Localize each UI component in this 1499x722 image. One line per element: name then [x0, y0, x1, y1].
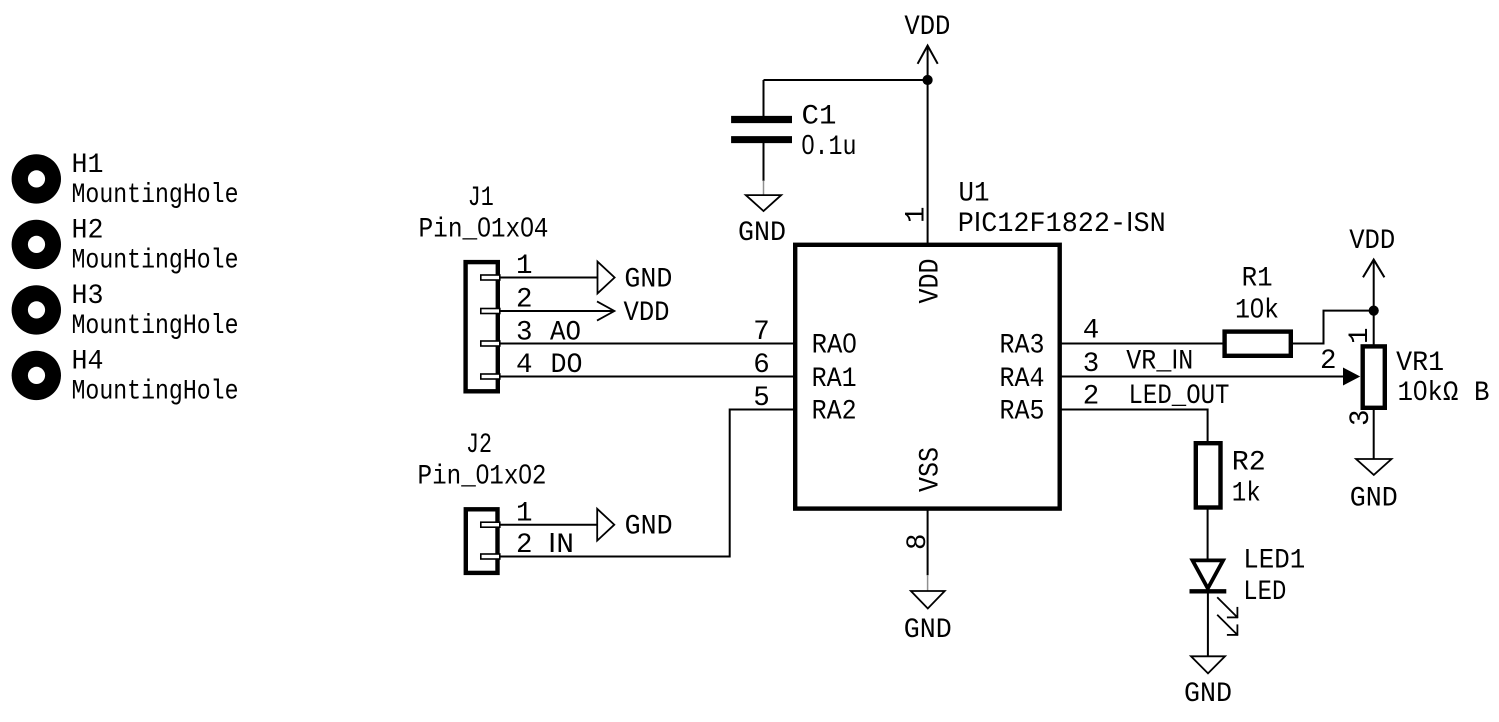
- wire R2 to LED1: [1207, 508, 1209, 559]
- svg-text:Pin_01x04: Pin_01x04: [419, 212, 549, 246]
- svg-text:3: 3: [1346, 409, 1377, 426]
- resistor R2 1k: [1196, 443, 1266, 509]
- svg-text:RA5: RA5: [1000, 396, 1045, 427]
- svg-text:2: 2: [1320, 346, 1337, 377]
- junction dot VDD right node: [1369, 306, 1379, 316]
- mounting hole H2: [12, 216, 239, 277]
- svg-text:H3: H3: [72, 281, 104, 312]
- svg-text:GND: GND: [1350, 484, 1398, 515]
- connector J2 Pin_01x02: [418, 430, 547, 573]
- svg-text:GND: GND: [624, 265, 672, 296]
- wire DO: J1 pin4 to RA1: [500, 376, 795, 378]
- wire J1 pin2 to VDD label: [500, 310, 614, 312]
- ground GND below VR1: [1350, 459, 1398, 515]
- svg-text:U1: U1: [959, 178, 990, 209]
- VR1 pin 2 number: [1320, 346, 1337, 377]
- wire VDD top to C1: [764, 79, 928, 81]
- svg-text:PIC12F1822-ISN: PIC12F1822-ISN: [958, 206, 1166, 240]
- U1 pin 2 RA5: [1000, 382, 1100, 428]
- svg-text:RA4: RA4: [1000, 364, 1045, 395]
- svg-text:10k: 10k: [1235, 292, 1279, 326]
- svg-text:VDD: VDD: [624, 298, 670, 329]
- svg-text:LED1: LED1: [1243, 545, 1305, 576]
- connector J1 Pin_01x04: [419, 183, 549, 391]
- svg-text:RA3: RA3: [1000, 331, 1045, 362]
- wire AO: J1 pin3 to RA0: [500, 343, 795, 345]
- wire R1 to VDD node: [1291, 311, 1374, 344]
- svg-text:Pin_01x02: Pin_01x02: [418, 459, 547, 493]
- svg-text:J2: J2: [466, 430, 492, 461]
- svg-text:H1: H1: [72, 150, 104, 181]
- wire J2 pin1 to GND label: [500, 524, 597, 526]
- U1 pin 4 RA3: [1000, 316, 1100, 362]
- net label VDD at J1 pin 2: [597, 298, 670, 329]
- svg-text:10kΩ B: 10kΩ B: [1398, 375, 1490, 409]
- svg-text:LED: LED: [1243, 577, 1286, 608]
- VR1 pin 1 number: [1345, 327, 1376, 344]
- resistor R1 10k: [1225, 264, 1291, 356]
- svg-text:3: 3: [1083, 349, 1100, 380]
- wire VDD to U1 pin 1: [927, 80, 929, 245]
- U1 pin 6 RA1: [753, 350, 856, 395]
- VR1 pin 3 number: [1346, 409, 1377, 426]
- J1 pin 4 label DO: [516, 350, 583, 381]
- svg-text:MountingHole: MountingHole: [72, 377, 239, 408]
- wire IN: J2 pin2 to RA2: [500, 410, 795, 557]
- svg-text:VDD: VDD: [904, 12, 950, 43]
- svg-text:GND: GND: [904, 615, 952, 646]
- U1 pin 1 VDD (top): [902, 206, 947, 303]
- net label GND at J1 pin 1: [598, 262, 673, 296]
- svg-text:VDD: VDD: [1349, 226, 1395, 257]
- svg-text:2: 2: [516, 530, 533, 561]
- svg-text:1k: 1k: [1232, 479, 1261, 510]
- svg-text:8: 8: [903, 533, 934, 550]
- wire LED1 to GND: [1207, 591, 1209, 656]
- potentiometer VR1 10k B: [1343, 311, 1490, 459]
- svg-text:2: 2: [1083, 382, 1100, 413]
- svg-text:GND: GND: [738, 218, 786, 249]
- svg-text:MountingHole: MountingHole: [72, 246, 239, 277]
- svg-text:GND: GND: [625, 512, 673, 543]
- U1 pin 7 RA0: [753, 317, 856, 362]
- mounting hole H1: [12, 150, 239, 211]
- mounting hole H4: [12, 347, 239, 408]
- wire RA3 to R1: [1060, 343, 1224, 345]
- U1 pin 8 VSS (bottom): [903, 447, 947, 575]
- capacitor C1: [731, 80, 856, 181]
- net label GND at J2 pin 1: [597, 509, 672, 543]
- IC U1 PIC12F1822-ISN: [795, 178, 1166, 508]
- svg-text:VDD: VDD: [916, 259, 947, 304]
- J1 pin 3 label AO: [516, 317, 581, 348]
- net label LED_OUT: [1129, 381, 1230, 412]
- svg-text:RA2: RA2: [812, 396, 857, 427]
- mounting hole H3: [12, 281, 239, 342]
- U1 pin 5 RA2: [753, 383, 856, 427]
- J2 pin 2 label IN: [516, 527, 574, 561]
- svg-text:1: 1: [1345, 327, 1376, 344]
- net label VR_IN: [1126, 344, 1193, 378]
- svg-text:IN: IN: [548, 527, 574, 561]
- svg-text:RA0: RA0: [812, 328, 857, 362]
- wire RA4 to VR1 wiper: [1060, 376, 1344, 378]
- ground GND below C1: [738, 181, 786, 249]
- svg-text:VR_IN: VR_IN: [1126, 344, 1193, 378]
- svg-text:GND: GND: [1184, 679, 1232, 710]
- svg-text:LED_OUT: LED_OUT: [1129, 381, 1230, 412]
- ground GND below LED1: [1184, 656, 1232, 710]
- junction dot VDD node: [923, 75, 933, 85]
- J2 pin 1: [516, 498, 533, 529]
- power symbol VDD right: [1349, 226, 1395, 311]
- svg-text:0.1u: 0.1u: [802, 129, 857, 163]
- U1 pin 3 RA4: [1000, 349, 1100, 395]
- svg-text:1: 1: [902, 206, 933, 223]
- svg-text:H2: H2: [72, 216, 104, 247]
- LED LED1: [1190, 545, 1306, 635]
- wire J1 pin1 to GND label: [500, 277, 598, 279]
- power symbol VDD top: [904, 12, 950, 80]
- svg-text:RA1: RA1: [812, 364, 857, 395]
- wire RA5 to R2: [1060, 410, 1208, 444]
- svg-text:MountingHole: MountingHole: [72, 311, 239, 342]
- svg-text:R2: R2: [1232, 448, 1266, 479]
- J1 pin 2: [516, 285, 533, 316]
- svg-text:J1: J1: [468, 183, 494, 214]
- svg-text:4: 4: [1083, 316, 1100, 347]
- svg-text:R1: R1: [1242, 264, 1273, 295]
- ground GND below U1: [904, 575, 952, 646]
- svg-text:H4: H4: [72, 347, 104, 378]
- svg-text:VSS: VSS: [916, 447, 947, 492]
- J1 pin 1: [516, 251, 533, 282]
- svg-text:MountingHole: MountingHole: [72, 180, 239, 211]
